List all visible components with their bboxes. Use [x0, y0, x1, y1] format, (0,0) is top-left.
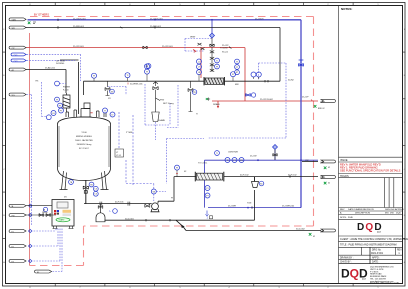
red process line CIP supply	[26, 48, 318, 107]
svg-text:E1: E1	[12, 231, 14, 233]
tundish drain	[252, 177, 259, 188]
svg-text:FLAME: FLAME	[158, 119, 166, 122]
drain arrow symbol	[181, 225, 185, 229]
svg-text:MG: MG	[385, 213, 389, 215]
vessel legs	[60, 171, 109, 190]
svg-text:PROD: PROD	[320, 177, 326, 179]
svg-text:FV / 150°C: FV / 150°C	[79, 148, 90, 150]
vessel instruments top	[51, 108, 115, 117]
blue control valve on riser x301	[299, 60, 304, 66]
sample branch x275	[273, 145, 278, 150]
level bridle dash-dot right of vessel	[119, 112, 154, 189]
svg-text:REV: REV	[340, 209, 345, 211]
svg-text:TUN: TUN	[247, 202, 252, 204]
svg-text:APP'D :: APP'D :	[372, 256, 380, 259]
svg-text:ISSUE: ISSUE	[340, 159, 348, 162]
svg-text:DRAIN: DRAIN	[213, 103, 220, 106]
svg-text:25-CW: 25-CW	[250, 156, 257, 158]
vessel instruments bottom	[69, 180, 99, 197]
svg-text:CW2: CW2	[14, 61, 18, 63]
blue utility connector flags (left)	[11, 53, 26, 62]
svg-text:CHK'D BY :: CHK'D BY :	[340, 262, 352, 264]
small valves on left utility lines	[26, 206, 56, 217]
flow tick marks	[58, 19, 290, 222]
svg-text:START: START	[59, 219, 66, 222]
seal pot under suction	[96, 204, 105, 222]
vent valve cluster	[198, 43, 205, 50]
spec break green marks	[28, 22, 327, 236]
svg-text:25-CW-S-001: 25-CW-S-001	[73, 18, 87, 20]
pump suction / discharge piping	[84, 162, 321, 231]
svg-text:PSV: PSV	[160, 100, 165, 102]
vessel bottom nozzle + valve	[83, 181, 88, 204]
red tick marks	[128, 50, 313, 102]
svg-text:MIXING VESSEL: MIXING VESSEL	[76, 136, 93, 138]
svg-text:02: 02	[328, 167, 330, 169]
sample cooler branch x212	[210, 33, 215, 38]
valve on CIP line	[143, 46, 147, 49]
svg-text:02: 02	[328, 183, 330, 185]
instrument stems	[94, 74, 259, 81]
revision red text	[340, 163, 401, 173]
instrument IA bubble	[43, 207, 47, 211]
off-page connector flags (right)	[321, 100, 335, 232]
svg-text:CIP-R: CIP-R	[320, 101, 326, 103]
svg-text:25-WFI-001: 25-WFI-001	[73, 26, 85, 28]
TITLE BLOCK	[339, 6, 403, 284]
blue cooling headers	[205, 20, 319, 208]
svg-text:DQD: DQD	[396, 213, 401, 215]
svg-text:T-100: T-100	[81, 132, 87, 134]
svg-text:E2: E2	[12, 246, 14, 248]
svg-text:NOTE : P&ID: NOTE : P&ID	[340, 217, 353, 219]
svg-text:REV: REV	[397, 249, 402, 251]
svg-text:DATE :: DATE :	[372, 261, 380, 264]
heat exchanger E-100	[195, 172, 224, 182]
instrument FI bubble	[146, 64, 151, 69]
instrument TI bubble on cooling line	[215, 151, 220, 156]
pump instrument	[151, 189, 156, 194]
static mixer M-1 on header	[204, 77, 225, 85]
blue main utility line	[28, 20, 302, 208]
header relief assembly	[152, 81, 160, 121]
svg-text:50-D-001: 50-D-001	[125, 218, 135, 220]
svg-text:0021-P-001: 0021-P-001	[371, 253, 384, 255]
instrument tags tiny	[43, 60, 263, 211]
header drop valve 1	[105, 81, 110, 95]
svg-text:25-CIP-001: 25-CIP-001	[73, 46, 84, 48]
svg-text:ENQUIRY: INFO@DQD.CO.UK: ENQUIRY: INFO@DQD.CO.UK	[370, 282, 400, 284]
sample cooler instrument bubbles	[215, 58, 240, 75]
svg-text:25-CIP-R-002: 25-CIP-R-002	[260, 99, 274, 101]
svg-text:VENT: VENT	[190, 37, 196, 39]
svg-text:TO COOL: TO COOL	[198, 163, 208, 165]
svg-text:50-VENT-001: 50-VENT-001	[130, 84, 143, 86]
vessel T-100 mixing tank	[58, 117, 111, 181]
suction flange pair	[100, 202, 130, 206]
svg-text:E4: E4	[37, 272, 39, 274]
svg-text:LT 01: LT 01	[116, 155, 122, 157]
DQD logo (title block)	[357, 222, 383, 234]
svg-text:CW: CW	[305, 160, 309, 162]
svg-text:25-CIP-001: 25-CIP-001	[162, 46, 173, 48]
svg-text:40-P-102: 40-P-102	[240, 175, 249, 177]
svg-text:25-AD-001: 25-AD-001	[45, 67, 56, 70]
svg-text:NOTES:: NOTES:	[341, 7, 352, 11]
svg-text:TITLE : P&ID PIPING AND: TITLE : P&ID PIPING AND INSTRUMENT DIAGR…	[340, 243, 397, 246]
control panel CP-100	[52, 200, 74, 229]
rev table header text	[340, 208, 404, 219]
svg-text:APPRVD: APPRVD	[395, 208, 404, 211]
svg-text:BY OTHERS: BY OTHERS	[34, 12, 49, 16]
vessel top nozzles and agitator	[66, 103, 106, 117]
blue dotted signal boxes	[27, 39, 287, 184]
svg-text:50-N2: 50-N2	[288, 79, 295, 81]
svg-text:25-CWR: 25-CWR	[228, 206, 236, 208]
svg-text:E3: E3	[12, 261, 14, 263]
filter column F-100	[63, 93, 70, 112]
svg-text:SET 3 barg: SET 3 barg	[163, 102, 174, 105]
svg-text:MIX: MIX	[235, 84, 239, 86]
svg-text:F-100: F-100	[63, 90, 69, 92]
svg-text:TO ATM: TO ATM	[220, 46, 228, 49]
junction dots	[154, 19, 302, 209]
misc labels near right flags	[313, 108, 330, 238]
svg-text:CLIENT : ACME THE COATING: CLIENT : ACME THE COATING COMPANY LTD, U…	[340, 238, 408, 241]
svg-text:CWR: CWR	[320, 162, 325, 164]
svg-text:FILTER: FILTER	[63, 87, 71, 89]
panel green button	[56, 218, 70, 222]
svg-text:CW1: CW1	[14, 55, 18, 57]
HX instrument row	[225, 158, 244, 163]
svg-text:DATE DRAWN REVISION: DATE DRAWN REVISION	[348, 208, 374, 211]
svg-text:25-CW-S-001: 25-CW-S-001	[150, 18, 164, 20]
black process header (top)	[26, 28, 280, 115]
blue valve near tundish	[246, 93, 256, 97]
header drop valve 2	[188, 81, 193, 111]
vessel text	[75, 132, 93, 150]
svg-text:02: 02	[313, 236, 315, 238]
svg-text:SC-01: SC-01	[222, 52, 229, 54]
svg-text:25-WFI-001: 25-WFI-001	[150, 26, 162, 28]
connector flag texts	[12, 20, 326, 274]
svg-text:40-P-102: 40-P-102	[288, 175, 297, 177]
red arrowhead on drain stub	[217, 106, 219, 108]
svg-text:2" MIN: 2" MIN	[126, 132, 133, 134]
panel buttons	[54, 210, 71, 216]
panel signal leads	[27, 95, 63, 272]
pump discharge PI PT bubbles	[205, 186, 210, 199]
red boundary left leg	[29, 33, 31, 266]
svg-text:HOLDS: HOLDS	[340, 175, 349, 178]
instrument bubbles on top header	[92, 59, 262, 78]
svg-text:DRN: DRN	[320, 231, 325, 233]
svg-text:PW: PW	[12, 215, 15, 217]
svg-text:CWS HDR: CWS HDR	[228, 152, 238, 154]
off-page connector flags (left)	[9, 18, 52, 273]
instrument XV bubble on drop 2	[192, 90, 197, 95]
filter instruments	[55, 81, 60, 86]
svg-text:BRK 02: BRK 02	[318, 108, 325, 110]
svg-text:50-D-002: 50-D-002	[296, 229, 306, 231]
red dashed battery-limit boundary	[30, 17, 314, 266]
svg-text:25-CWR-002: 25-CWR-002	[282, 206, 295, 208]
svg-text:WFI: WFI	[12, 28, 16, 30]
address text	[370, 267, 400, 285]
svg-text:DESIGN 3 barg: DESIGN 3 barg	[77, 143, 92, 146]
level bubble L on suction	[113, 209, 118, 214]
discharge instrument	[175, 165, 180, 170]
svg-text:25-CW-S: 25-CW-S	[255, 18, 264, 20]
svg-text:40-P-101: 40-P-101	[115, 202, 124, 204]
svg-text:DOSING: DOSING	[56, 63, 65, 65]
svg-text:PA 6b: PA 6b	[42, 211, 48, 214]
pipe line labels	[42, 18, 309, 230]
DQD logo (address block)	[341, 267, 368, 281]
svg-text:DRG No.: DRG No.	[372, 249, 382, 251]
svg-text:SEE FUNCTIONAL SPECIFICATION F: SEE FUNCTIONAL SPECIFICATION FOR DETAILS	[340, 169, 401, 173]
svg-text:25-CIP: 25-CIP	[302, 97, 309, 99]
svg-text:DESCRIPTION: DESCRIPTION	[355, 213, 370, 215]
level box	[115, 149, 124, 157]
svg-text:DRAWN BY :: DRAWN BY :	[340, 256, 354, 259]
pump P-100	[145, 203, 159, 212]
drg no	[340, 249, 402, 263]
svg-text:CIP SKID: CIP SKID	[56, 60, 65, 62]
svg-text:5000 L JACKETED: 5000 L JACKETED	[75, 139, 93, 142]
